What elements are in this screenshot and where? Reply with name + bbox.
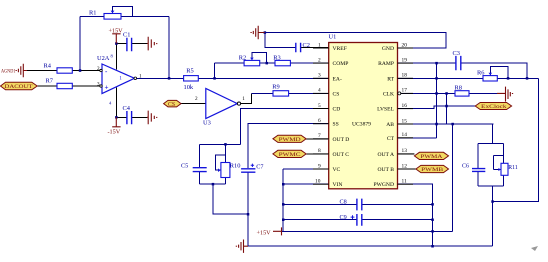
wire feedback right vertical to op-amp output	[168, 17, 170, 79]
svg-text:+15V: +15V	[109, 28, 124, 35]
wire network center drop	[492, 186, 494, 246]
wire R10 branch	[224, 144, 226, 184]
port PWMD	[273, 135, 306, 142]
svg-text:R9: R9	[272, 84, 279, 91]
resistor R4	[44, 63, 73, 74]
svg-text:C3: C3	[453, 50, 460, 57]
wire U2A V+ pin	[115, 44, 117, 70]
svg-text:-15V: -15V	[108, 129, 121, 136]
svg-text:CD: CD	[333, 107, 341, 113]
wire R2 wiper loop	[252, 53, 267, 64]
ground top rail	[251, 26, 265, 39]
wire IC pin9 VC left	[283, 168, 329, 170]
svg-text:C5: C5	[181, 163, 188, 170]
svg-text:OUT C: OUT C	[333, 152, 350, 158]
svg-text:U2A: U2A	[97, 55, 110, 62]
svg-text:R4: R4	[44, 63, 52, 70]
svg-text:2: 2	[195, 96, 198, 102]
port CS	[164, 100, 181, 107]
resistor R11 vertical	[498, 163, 517, 175]
svg-text:GND: GND	[382, 46, 394, 52]
svg-text:R7: R7	[46, 77, 54, 84]
wire R3 to IC pin2	[290, 62, 328, 64]
wire IC pin8 to PWMC	[306, 153, 329, 155]
pin 13 stub	[398, 153, 415, 155]
svg-text:OUT B: OUT B	[377, 167, 394, 173]
svg-text:VC: VC	[333, 167, 341, 173]
svg-text:R3: R3	[273, 55, 280, 62]
svg-text:C4: C4	[123, 105, 131, 112]
wire IC pin13 to PWMA	[398, 153, 415, 155]
ground AGND1 symbol	[1, 64, 27, 77]
pin 9 stub	[313, 168, 329, 170]
svg-text:+15V: +15V	[257, 230, 272, 237]
wire IC pin7 to PWMD	[306, 138, 329, 140]
wire vertical drop to C2	[265, 33, 296, 48]
small gray arrow artifact bottom right	[531, 246, 538, 251]
wire C7 bottom to ground rail	[247, 173, 249, 247]
resistor R9	[272, 84, 288, 97]
wire feedback left vertical to op-amp pin2	[79, 17, 81, 71]
svg-text:AGND1: AGND1	[1, 69, 16, 75]
svg-text:R8: R8	[455, 85, 462, 92]
svg-text:PWMD: PWMD	[279, 137, 301, 143]
port ExClock	[475, 103, 511, 110]
pin 19 stub	[398, 62, 414, 64]
wire C4 to ground	[131, 116, 147, 118]
wire CS port to U3	[181, 103, 206, 105]
svg-text:18: 18	[402, 73, 408, 79]
svg-text:ExClock: ExClock	[481, 104, 507, 110]
pin 12 stub	[398, 168, 416, 170]
svg-text:SS: SS	[333, 122, 339, 128]
wire R1 feedback top rail	[80, 16, 169, 18]
pin 6 stub	[313, 123, 329, 125]
wire R4 to op-amp pin2	[72, 70, 100, 72]
svg-text:3: 3	[97, 81, 100, 87]
power +15V bottom	[257, 227, 282, 236]
wire IC pin17 CLK to R8	[398, 92, 456, 94]
pin 1 stub	[313, 47, 329, 49]
svg-text:U3: U3	[203, 120, 211, 127]
svg-text:VIN: VIN	[333, 182, 343, 188]
capacitor C8	[340, 198, 362, 210]
ground bottom rail	[236, 240, 248, 253]
capacitor C6	[462, 163, 485, 171]
svg-text:C8: C8	[340, 198, 347, 205]
wire IC pin18 RT to R6	[398, 77, 484, 79]
svg-text:C9: C9	[340, 214, 347, 221]
svg-text:2: 2	[318, 57, 321, 63]
wire IC pin14 CT	[398, 137, 437, 139]
svg-text:AB: AB	[386, 122, 394, 128]
wire AB drop to +15V	[452, 124, 454, 231]
wire IC pin12 to PWMB	[398, 168, 416, 170]
resistor R6 potentiometer	[477, 69, 497, 81]
svg-text:RAMP: RAMP	[378, 61, 394, 67]
pin names right	[373, 46, 394, 188]
resistor R3	[273, 55, 290, 66]
svg-text:U1: U1	[329, 34, 337, 41]
resistor R2 potentiometer	[239, 55, 260, 66]
wire IC pin11 PWGND down	[398, 184, 433, 246]
svg-text:13: 13	[402, 148, 408, 154]
wire IC pin19 RAMP with C3	[398, 63, 528, 78]
ground at C4	[147, 111, 157, 125]
pin 7 stub	[313, 138, 329, 140]
svg-text:OUT D: OUT D	[333, 137, 350, 143]
op-amp U2A	[97, 54, 142, 106]
wire far right vertical	[493, 78, 539, 201]
wire R7 to op-amp pin3	[72, 85, 100, 87]
svg-text:16: 16	[402, 103, 408, 109]
svg-text:C7: C7	[256, 163, 263, 170]
svg-text:20: 20	[402, 42, 408, 48]
svg-text:R5: R5	[186, 67, 193, 74]
port PWMC	[273, 150, 306, 157]
svg-text:OUT A: OUT A	[377, 152, 394, 158]
power -15V	[108, 117, 121, 135]
wire AGND1 to R4	[27, 70, 57, 72]
wire R10 network bottom rail	[200, 183, 226, 185]
port PWMA	[414, 152, 448, 159]
capacitor C5	[181, 163, 207, 172]
wire C6/R11 bottom rail	[478, 185, 503, 187]
svg-text:DACOUT: DACOUT	[5, 84, 34, 90]
svg-text:5: 5	[318, 103, 321, 109]
pin 8 stub	[313, 153, 329, 155]
wire bottom ground rail	[248, 245, 493, 247]
wire VC/VIN vertical to +15V	[282, 169, 284, 231]
wire R9 to IC pin4	[289, 92, 329, 94]
svg-text:C6: C6	[462, 163, 469, 169]
wire R2 to R3	[260, 62, 275, 64]
wire AB to C6/R11 network	[492, 124, 494, 143]
wire COMP branch vertical	[214, 63, 216, 78]
svg-text:R2: R2	[239, 55, 246, 62]
wire +15V to C1	[116, 43, 126, 45]
pin 5 stub	[313, 108, 329, 110]
wire V- junction to C4	[116, 116, 126, 118]
wire C2 to IC pin1	[300, 47, 328, 49]
wire top ground rail to IC pin20	[260, 33, 447, 49]
op-amp U1 UC3879 IC body	[329, 43, 398, 189]
wire C5 branch	[199, 144, 201, 184]
wire IC pin10 VIN left	[283, 183, 329, 185]
wire IC pin6 SS to C7	[248, 124, 329, 168]
port DACOUT	[1, 82, 38, 90]
wire R1 wiper loop	[113, 7, 133, 17]
pin 16 stub	[398, 108, 414, 110]
pin 17 stub with clock bubble	[401, 92, 413, 94]
wire +15V bottom rail	[282, 230, 453, 232]
svg-text:CS: CS	[333, 91, 340, 97]
pin 2 stub	[313, 62, 329, 64]
resistor R10 potentiometer vertical	[218, 163, 240, 178]
ground at C1	[147, 37, 157, 51]
svg-text:R6: R6	[477, 69, 484, 76]
svg-text:2: 2	[97, 66, 100, 72]
svg-text:15: 15	[402, 118, 408, 124]
svg-text:C1: C1	[123, 32, 130, 39]
wire U2A V- pin	[115, 88, 117, 118]
svg-text:PWMC: PWMC	[279, 152, 302, 158]
svg-text:RT: RT	[387, 76, 394, 82]
svg-text:6: 6	[318, 118, 321, 124]
wire COMP line to R2	[215, 62, 245, 64]
buffer U3	[195, 88, 245, 126]
svg-text:C2: C2	[303, 42, 310, 49]
pin names left	[333, 46, 350, 188]
pin 18 stub	[398, 77, 414, 79]
svg-text:PWMA: PWMA	[420, 154, 442, 160]
wire R6 wiper loop	[490, 67, 508, 79]
wire IC pin16 LVSEL	[398, 106, 476, 109]
svg-text:VREF: VREF	[333, 46, 347, 52]
pin 20 stub	[398, 47, 414, 49]
wire DACOUT to R7	[37, 85, 57, 87]
svg-text:14: 14	[402, 132, 408, 138]
svg-text:8: 8	[318, 148, 321, 154]
svg-text:LVSEL: LVSEL	[377, 107, 394, 113]
svg-text:1: 1	[139, 73, 142, 79]
svg-text:UC3879: UC3879	[352, 122, 371, 128]
wire IC pin15 AB	[398, 123, 494, 125]
svg-text:1: 1	[318, 42, 321, 48]
wire pin17 drop to ExClock	[446, 93, 448, 124]
svg-text:17: 17	[402, 88, 408, 94]
wire op-amp U2A output to R5	[136, 77, 184, 79]
wire C6 branch	[477, 143, 479, 186]
wire R10 network top rail	[200, 143, 241, 145]
svg-text:PWGND: PWGND	[373, 182, 394, 188]
capacitor C7 polarized	[241, 163, 263, 172]
svg-text:11: 11	[402, 179, 407, 185]
wire network bottom drop	[213, 184, 248, 214]
wire U3 output	[241, 93, 252, 103]
pin 4 stub	[313, 92, 329, 94]
svg-text:CLK: CLK	[383, 91, 394, 97]
resistor R8	[455, 85, 470, 96]
resistor R1	[89, 10, 121, 20]
resistor R7	[46, 77, 73, 88]
wire R5 to EA- junction and IC pin3	[198, 77, 328, 79]
resistor R5	[184, 67, 199, 91]
pin 3 stub	[313, 77, 329, 79]
power +15V top	[109, 28, 124, 44]
pin 10 stub	[313, 183, 329, 185]
svg-text:7: 7	[318, 133, 321, 139]
svg-text:9: 9	[318, 163, 321, 169]
svg-text:4: 4	[318, 88, 321, 94]
svg-text:19: 19	[402, 57, 408, 63]
svg-text:12: 12	[402, 163, 408, 169]
svg-text:EA-: EA-	[333, 76, 342, 82]
port PWMB	[416, 165, 449, 172]
svg-text:R1: R1	[89, 10, 96, 17]
svg-text:10k: 10k	[184, 84, 194, 91]
wire IC pin5 CD to R10 network	[240, 109, 328, 145]
wire C1 to ground	[131, 43, 147, 45]
svg-text:COMP: COMP	[333, 61, 349, 67]
svg-text:3: 3	[318, 73, 321, 79]
wire U3 out corner to R9	[252, 92, 274, 94]
pin 11 stub	[398, 183, 414, 185]
wire R8 to ground	[469, 92, 497, 94]
pin 15 stub	[398, 123, 414, 125]
svg-text:CS: CS	[168, 102, 175, 108]
svg-text:R10: R10	[230, 163, 241, 170]
svg-text:PWMB: PWMB	[421, 167, 444, 173]
svg-text:10: 10	[315, 179, 321, 185]
wire R6 right lead to far right	[497, 77, 538, 79]
ground at R8	[497, 87, 513, 102]
svg-text:+: +	[105, 84, 109, 92]
capacitor C4	[123, 105, 132, 124]
wire C6/R11 top rail	[478, 142, 503, 144]
pin 14 stub	[398, 137, 414, 139]
svg-text:R11: R11	[508, 165, 518, 171]
svg-text:1: 1	[242, 96, 245, 102]
wire R11 branch	[493, 143, 503, 186]
capacitor C9 polarized	[340, 214, 362, 226]
svg-text:CT: CT	[387, 136, 395, 142]
wire R10 wiper loop	[216, 155, 226, 170]
svg-text:1: 1	[119, 75, 122, 81]
capacitor C2	[296, 42, 310, 52]
junction dots	[79, 69, 82, 72]
capacitor C3	[453, 50, 461, 70]
wire C8 line	[283, 203, 432, 205]
wire pins 19-14 bus vertical	[436, 63, 438, 138]
capacitor C1	[123, 32, 132, 52]
wire C9 line	[283, 219, 432, 221]
